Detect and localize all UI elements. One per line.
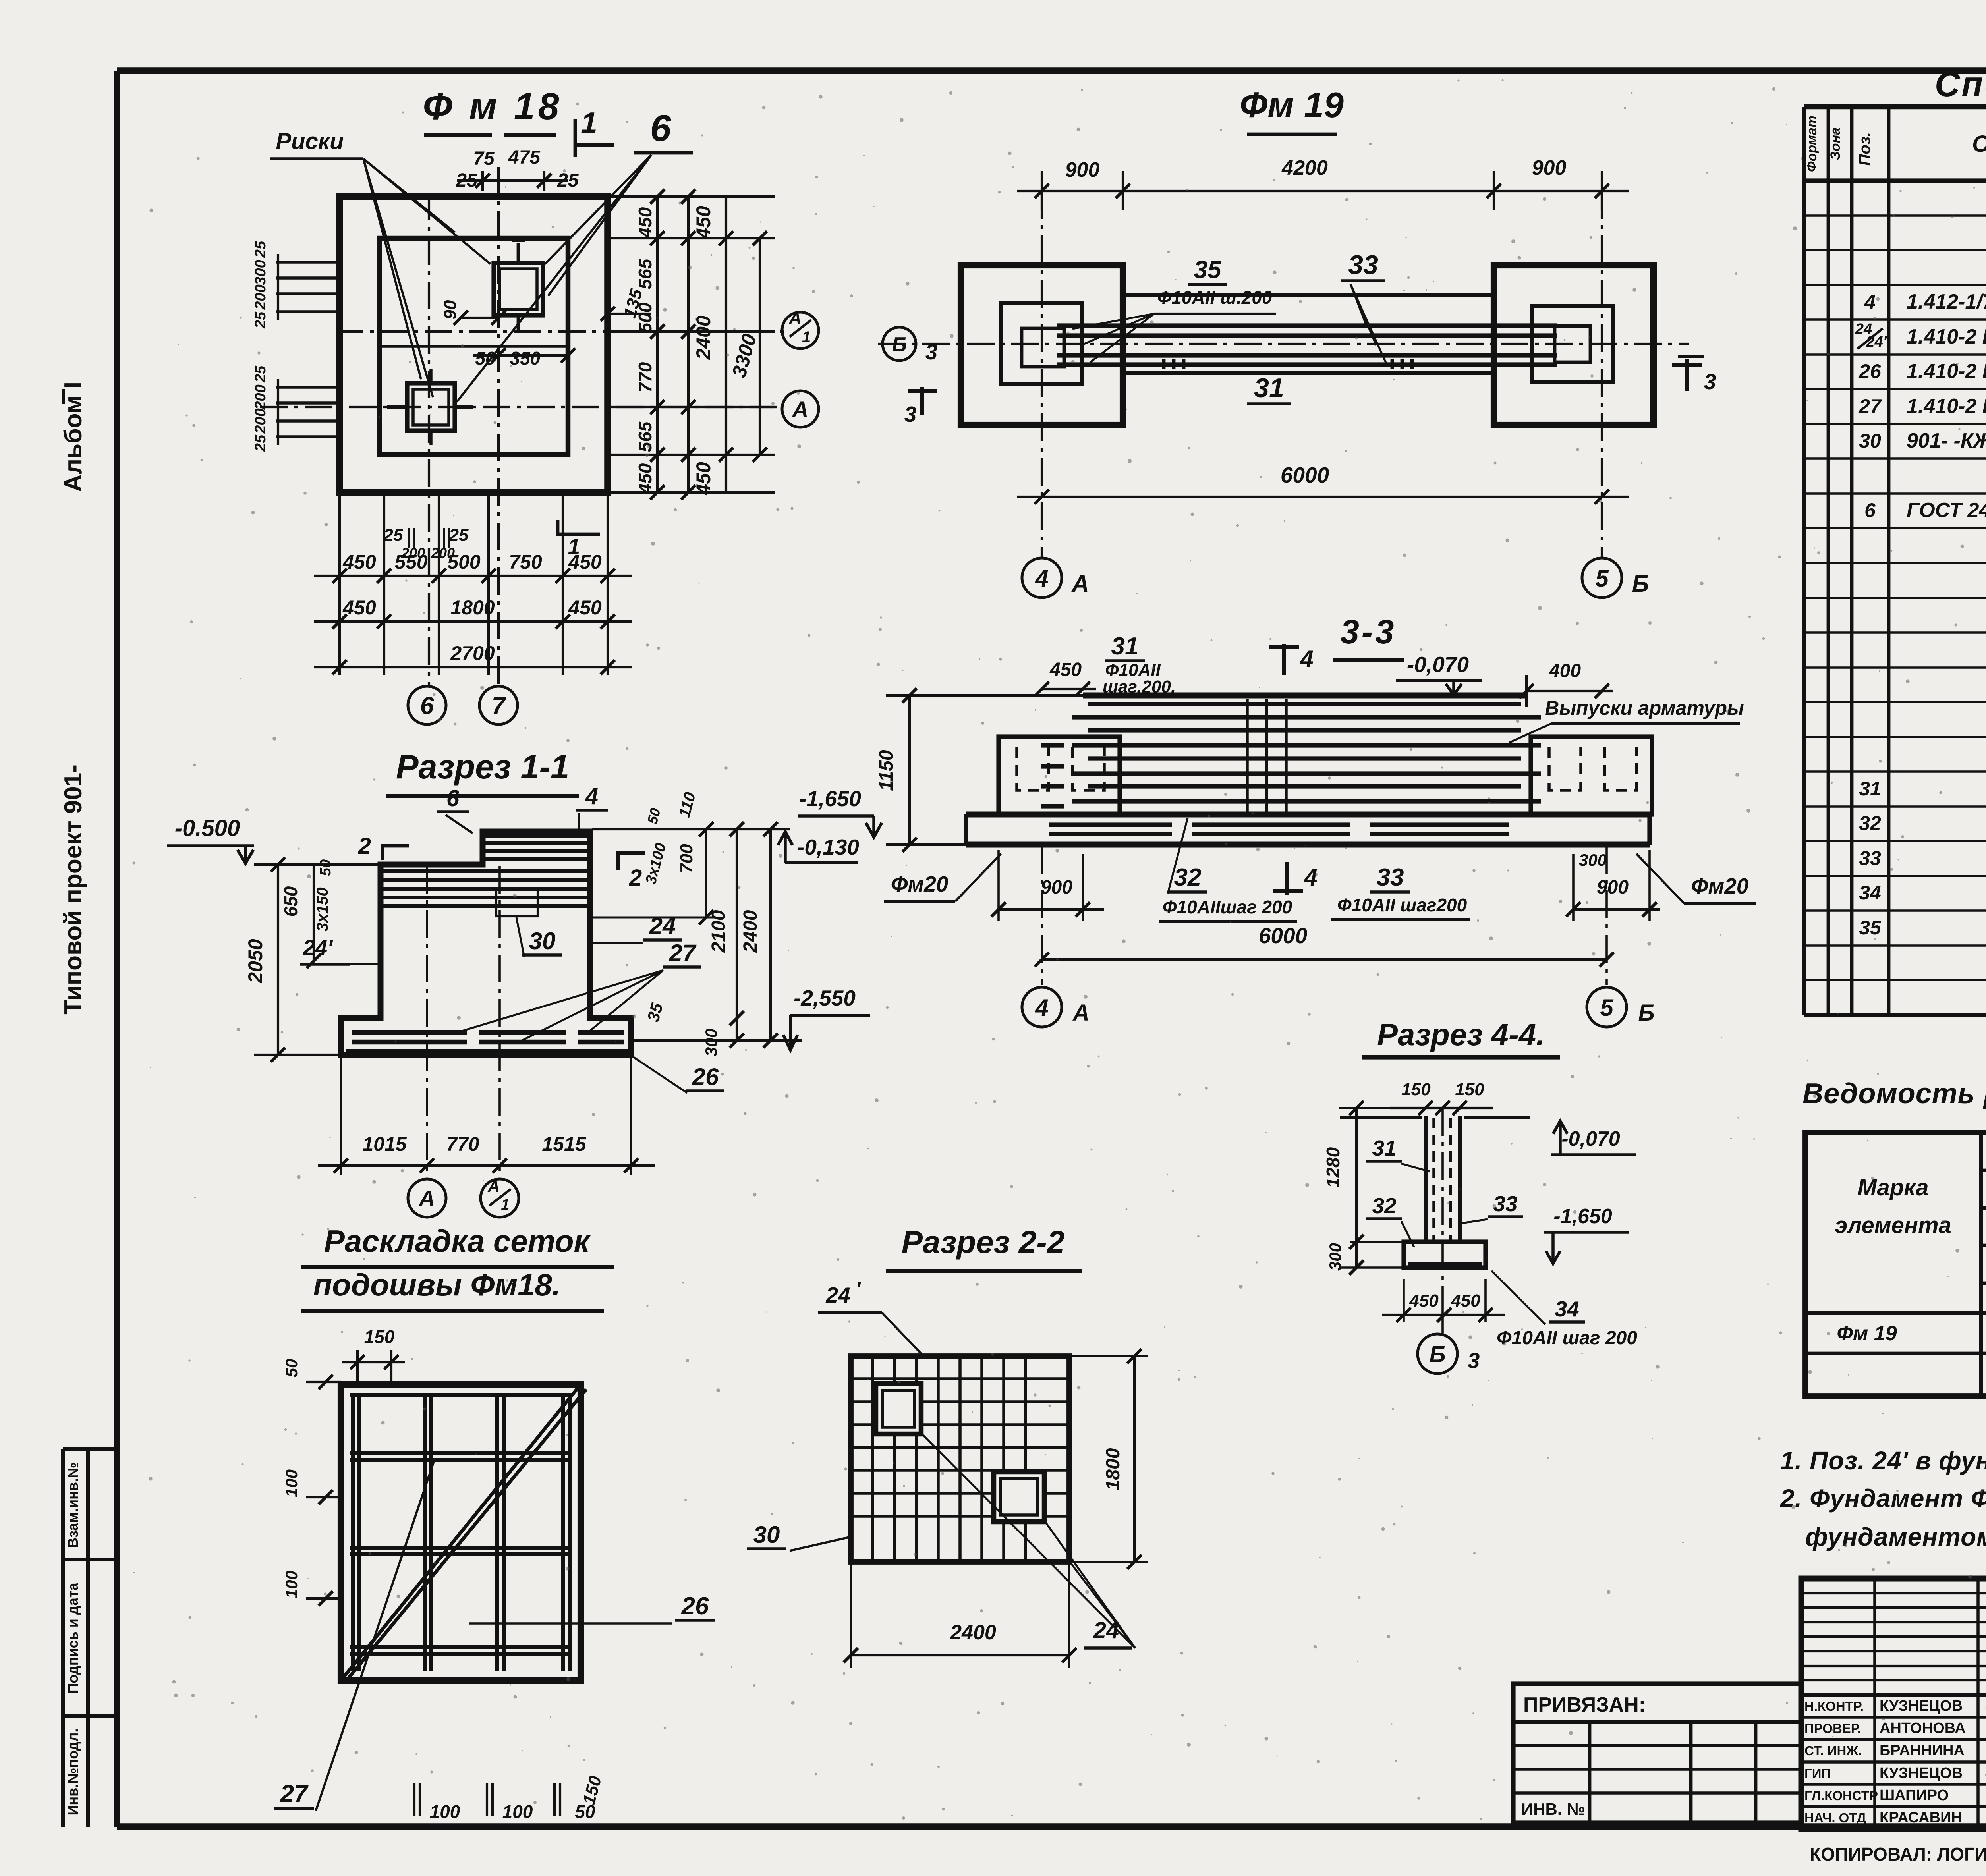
svg-text:32: 32 — [1859, 812, 1881, 834]
svg-text:2: 2 — [629, 865, 642, 891]
svg-text:900: 900 — [1532, 156, 1567, 179]
svg-text:-1,650: -1,650 — [799, 786, 861, 811]
svg-text:Б: Б — [1638, 1000, 1654, 1026]
svg-text:4: 4 — [1035, 565, 1048, 592]
svg-text:А: А — [788, 309, 802, 328]
svg-text:4: 4 — [1864, 291, 1876, 313]
svg-text:Взам.инв.№: Взам.инв.№ — [65, 1462, 81, 1548]
svg-text:50: 50 — [282, 1359, 301, 1378]
svg-text:27: 27 — [280, 1780, 309, 1808]
svg-text:Разрез 2-2: Разрез 2-2 — [902, 1224, 1065, 1260]
svg-text:1: 1 — [501, 1197, 509, 1213]
svg-text:3: 3 — [925, 340, 938, 364]
svg-text:Фм20: Фм20 — [891, 872, 949, 896]
svg-text:450: 450 — [635, 207, 655, 238]
svg-text:2400: 2400 — [692, 315, 715, 360]
svg-text:Ф10АII шаг 200: Ф10АII шаг 200 — [1497, 1328, 1637, 1349]
svg-text:2. Фундамент Фм 19 бетонироват: 2. Фундамент Фм 19 бетонировать одноврем… — [1780, 1484, 1986, 1513]
svg-text:Фм20: Фм20 — [1691, 874, 1749, 898]
svg-text:450: 450 — [635, 463, 655, 494]
svg-text:ИНВ. №: ИНВ. № — [1521, 1800, 1585, 1818]
svg-text:32: 32 — [1174, 864, 1202, 891]
svg-text:-0,070: -0,070 — [1407, 652, 1469, 677]
svg-text:Фм 19: Фм 19 — [1240, 85, 1344, 125]
svg-text:1280: 1280 — [1323, 1147, 1343, 1188]
svg-text:КОПИРОВАЛ: ЛОГИНОВА: КОПИРОВАЛ: ЛОГИНОВА — [1810, 1844, 1986, 1864]
svg-text:шаг.200.: шаг.200. — [1103, 677, 1176, 697]
svg-text:3: 3 — [1468, 1348, 1480, 1373]
svg-text:25: 25 — [456, 170, 478, 191]
svg-text:6: 6 — [650, 107, 672, 149]
svg-text:5: 5 — [1595, 565, 1609, 592]
svg-text:КРАСАВИН: КРАСАВИН — [1880, 1809, 1962, 1826]
svg-text:А: А — [792, 397, 808, 422]
svg-text:200: 200 — [431, 545, 455, 561]
svg-text:32: 32 — [1372, 1193, 1397, 1218]
svg-text:фундаментом Фм 20.: фундаментом Фм 20. — [1805, 1523, 1986, 1551]
svg-text:150: 150 — [1401, 1080, 1431, 1099]
svg-text:25: 25 — [383, 525, 403, 545]
svg-text:7: 7 — [492, 692, 506, 720]
svg-text:-0,130: -0,130 — [797, 835, 859, 859]
svg-text:Разрез 1-1: Разрез 1-1 — [396, 748, 569, 786]
svg-text:770: 770 — [446, 1133, 479, 1155]
svg-text:3-3: 3-3 — [1341, 613, 1397, 651]
svg-text:ШАПИРО: ШАПИРО — [1880, 1787, 1949, 1804]
svg-text:Подпись и дата: Подпись и дата — [65, 1583, 81, 1694]
svg-text:Инв.№подл.: Инв.№подл. — [65, 1729, 81, 1816]
svg-text:А: А — [1071, 570, 1089, 597]
svg-text:1.410-2 Вып.1: 1.410-2 Вып.1 — [1907, 325, 1986, 348]
svg-text:450: 450 — [342, 551, 376, 573]
svg-text:4: 4 — [1304, 864, 1317, 891]
svg-text:Б: Б — [1429, 1341, 1445, 1367]
svg-text:4: 4 — [1300, 646, 1313, 672]
svg-text:500: 500 — [635, 302, 655, 333]
svg-text:Зона: Зона — [1828, 127, 1843, 160]
svg-text:КУЗНЕЦОВ: КУЗНЕЦОВ — [1880, 1765, 1963, 1781]
svg-text:-0.500: -0.500 — [175, 815, 240, 841]
svg-text:100: 100 — [282, 1571, 301, 1598]
svg-text:26: 26 — [681, 1592, 709, 1620]
svg-text:34: 34 — [1859, 882, 1881, 904]
svg-text:34: 34 — [1555, 1297, 1579, 1321]
svg-text:650: 650 — [280, 886, 301, 917]
svg-text:25: 25 — [252, 434, 269, 452]
svg-text:3: 3 — [904, 402, 917, 427]
svg-text:900: 900 — [1597, 877, 1629, 898]
svg-text:1: 1 — [568, 534, 580, 559]
svg-text:СТ. ИНЖ.: СТ. ИНЖ. — [1804, 1743, 1862, 1758]
svg-text:25: 25 — [449, 525, 469, 545]
svg-text:90: 90 — [440, 300, 460, 319]
svg-text:1800: 1800 — [1103, 1448, 1124, 1490]
svg-text:5: 5 — [1600, 994, 1614, 1021]
svg-text:Н.КОНТР.: Н.КОНТР. — [1804, 1699, 1864, 1714]
svg-text:33: 33 — [1859, 847, 1881, 869]
svg-text:33: 33 — [1348, 250, 1378, 280]
svg-text:110: 110 — [676, 790, 699, 819]
svg-text:6: 6 — [1864, 499, 1876, 521]
svg-text:27: 27 — [1858, 395, 1882, 417]
svg-text:450: 450 — [1409, 1291, 1439, 1310]
svg-text:2400: 2400 — [740, 910, 761, 953]
svg-text:Ф м 18: Ф м 18 — [423, 85, 562, 127]
svg-text:300: 300 — [252, 260, 269, 285]
svg-text:200: 200 — [252, 284, 269, 310]
svg-text:450: 450 — [342, 596, 376, 619]
svg-text:АНТОНОВА: АНТОНОВА — [1880, 1720, 1966, 1737]
svg-text:Типовой проект 901-: Типовой проект 901- — [60, 764, 87, 1015]
svg-text:Ведомость расхода стали на эле: Ведомость расхода стали на элемент,кГ — [1802, 1078, 1986, 1110]
svg-text:4200: 4200 — [1281, 156, 1328, 179]
svg-text:50: 50 — [317, 859, 334, 876]
svg-text:3300: 3300 — [728, 331, 761, 380]
svg-text:1.410-2 Вып.1: 1.410-2 Вып.1 — [1907, 360, 1986, 383]
svg-text:350: 350 — [510, 348, 541, 369]
svg-text:Спецификация фундаментов: Спецификация фундаментов — [1935, 64, 1986, 104]
svg-text:Б: Б — [1632, 570, 1649, 597]
svg-text:900: 900 — [1041, 877, 1072, 898]
svg-text:-1,650: -1,650 — [1553, 1205, 1612, 1228]
svg-text:30: 30 — [753, 1521, 780, 1548]
svg-text:50: 50 — [644, 806, 664, 826]
svg-text:300: 300 — [702, 1029, 721, 1056]
svg-text:Ф10АIIшаг 200: Ф10АIIшаг 200 — [1163, 897, 1292, 917]
svg-text:450: 450 — [1451, 1291, 1480, 1310]
svg-text:24: 24 — [825, 1283, 850, 1307]
svg-text:100: 100 — [502, 1801, 533, 1822]
svg-text:Разрез 4-4.: Разрез 4-4. — [1377, 1017, 1545, 1052]
svg-text:ГЛ.КОНСТР: ГЛ.КОНСТР — [1804, 1788, 1878, 1803]
svg-text:200: 200 — [252, 384, 269, 410]
svg-text:50: 50 — [475, 348, 496, 369]
svg-text:Ф10АII шаг200: Ф10АII шаг200 — [1337, 895, 1467, 915]
svg-text:150: 150 — [1455, 1080, 1484, 1099]
svg-text:подошвы Фм18.: подошвы Фм18. — [313, 1267, 561, 1302]
svg-text:6: 6 — [446, 786, 460, 811]
svg-text:НАЧ. ОТД: НАЧ. ОТД — [1804, 1810, 1866, 1825]
svg-text:Риски: Риски — [276, 128, 344, 154]
svg-text:6000: 6000 — [1281, 463, 1329, 487]
svg-text:1. Поз. 24' в фундаменте Фм 18: 1. Поз. 24' в фундаменте Фм 18 укоротить… — [1780, 1446, 1986, 1475]
svg-text:475: 475 — [508, 147, 541, 168]
svg-text:450: 450 — [692, 462, 715, 496]
svg-text:6000: 6000 — [1259, 923, 1308, 948]
svg-text:26: 26 — [692, 1063, 719, 1090]
svg-text:1800: 1800 — [450, 596, 495, 619]
svg-text:А: А — [418, 1186, 435, 1211]
svg-text:150: 150 — [364, 1326, 395, 1347]
svg-text:1: 1 — [802, 328, 811, 346]
svg-text:565: 565 — [635, 258, 655, 289]
svg-text:3x100: 3x100 — [642, 841, 669, 886]
svg-text:450: 450 — [568, 596, 602, 619]
svg-text:3x150: 3x150 — [314, 887, 331, 931]
svg-text:35: 35 — [1194, 256, 1222, 284]
svg-text:ГОСТ 24379.1-80: ГОСТ 24379.1-80 — [1907, 499, 1986, 522]
svg-text:901- -КЖИ, С7: 901- -КЖИ, С7 — [1907, 429, 1986, 452]
svg-text:150: 150 — [579, 1774, 605, 1807]
svg-text:Раскладка сеток: Раскладка сеток — [324, 1224, 591, 1258]
svg-text:400: 400 — [1549, 660, 1581, 681]
svg-text:565: 565 — [635, 421, 655, 452]
svg-text:3: 3 — [1704, 369, 1716, 394]
svg-text:33: 33 — [1493, 1191, 1517, 1216]
svg-text:33: 33 — [1377, 864, 1404, 891]
svg-text:31: 31 — [1859, 778, 1881, 800]
svg-text:25: 25 — [557, 170, 579, 191]
svg-text:1015: 1015 — [362, 1133, 407, 1155]
svg-text:Фм 19: Фм 19 — [1837, 1322, 1897, 1345]
svg-text:200: 200 — [252, 408, 269, 434]
svg-text:А: А — [1072, 1000, 1090, 1026]
svg-text:100: 100 — [430, 1801, 460, 1822]
svg-text:Ф10АII ш.200: Ф10АII ш.200 — [1157, 287, 1272, 308]
svg-text:24': 24' — [1866, 334, 1887, 350]
svg-text:4: 4 — [1035, 994, 1048, 1021]
svg-text:4: 4 — [585, 784, 598, 809]
svg-text:30: 30 — [1859, 430, 1881, 452]
svg-text:': ' — [855, 1277, 861, 1301]
svg-text:2050: 2050 — [244, 939, 267, 983]
svg-text:27: 27 — [669, 940, 697, 966]
svg-text:ПРОВЕР.: ПРОВЕР. — [1804, 1721, 1861, 1736]
svg-text:750: 750 — [509, 551, 542, 573]
svg-text:КУЗНЕЦОВ: КУЗНЕЦОВ — [1880, 1698, 1963, 1714]
svg-text:1.412-1/77 Вып.3: 1.412-1/77 Вып.3 — [1907, 290, 1986, 313]
svg-text:25: 25 — [252, 311, 269, 329]
svg-text:Выпуски арматуры: Выпуски арматуры — [1545, 697, 1744, 719]
svg-text:ПРИВЯЗАН:: ПРИВЯЗАН: — [1523, 1693, 1646, 1716]
svg-text:Формат: Формат — [1804, 116, 1820, 172]
svg-text:450: 450 — [692, 206, 715, 239]
svg-text:2400: 2400 — [950, 1621, 996, 1644]
svg-text:-2,550: -2,550 — [794, 986, 856, 1010]
svg-text:770: 770 — [635, 362, 655, 392]
svg-text:1: 1 — [581, 106, 597, 139]
svg-text:35: 35 — [643, 1001, 667, 1024]
svg-text:300: 300 — [1579, 851, 1607, 869]
svg-text:Поз.: Поз. — [1856, 132, 1874, 166]
svg-text:25: 25 — [252, 365, 269, 383]
svg-text:35: 35 — [1859, 917, 1882, 939]
svg-text:1150: 1150 — [876, 750, 897, 791]
svg-text:БРАННИНА: БРАННИНА — [1880, 1742, 1965, 1759]
svg-text:2700: 2700 — [450, 642, 495, 664]
svg-text:-0,070: -0,070 — [1561, 1127, 1620, 1150]
svg-text:25: 25 — [252, 241, 269, 258]
svg-text:24': 24' — [303, 935, 333, 960]
svg-text:1515: 1515 — [542, 1133, 586, 1155]
svg-text:элемента: элемента — [1835, 1212, 1951, 1238]
svg-text:700: 700 — [677, 844, 696, 873]
svg-text:6: 6 — [420, 692, 434, 720]
svg-text:ГИП: ГИП — [1804, 1766, 1831, 1781]
svg-text:450: 450 — [1049, 659, 1082, 680]
svg-text:100: 100 — [282, 1469, 301, 1497]
svg-text:Б: Б — [892, 333, 907, 356]
svg-text:31: 31 — [1111, 633, 1139, 660]
svg-text:А: А — [487, 1177, 500, 1196]
svg-text:31: 31 — [1254, 373, 1284, 403]
svg-text:Марка: Марка — [1857, 1175, 1928, 1200]
svg-text:30: 30 — [529, 928, 556, 954]
svg-text:26: 26 — [1858, 360, 1882, 382]
svg-text:1.410-2 Вып.1: 1.410-2 Вып.1 — [1907, 395, 1986, 418]
svg-text:31: 31 — [1372, 1136, 1396, 1160]
svg-text:2: 2 — [358, 833, 371, 859]
svg-text:75: 75 — [473, 148, 495, 169]
svg-text:900: 900 — [1065, 158, 1100, 181]
svg-text:Обозначение: Обозначение — [1972, 131, 1986, 157]
